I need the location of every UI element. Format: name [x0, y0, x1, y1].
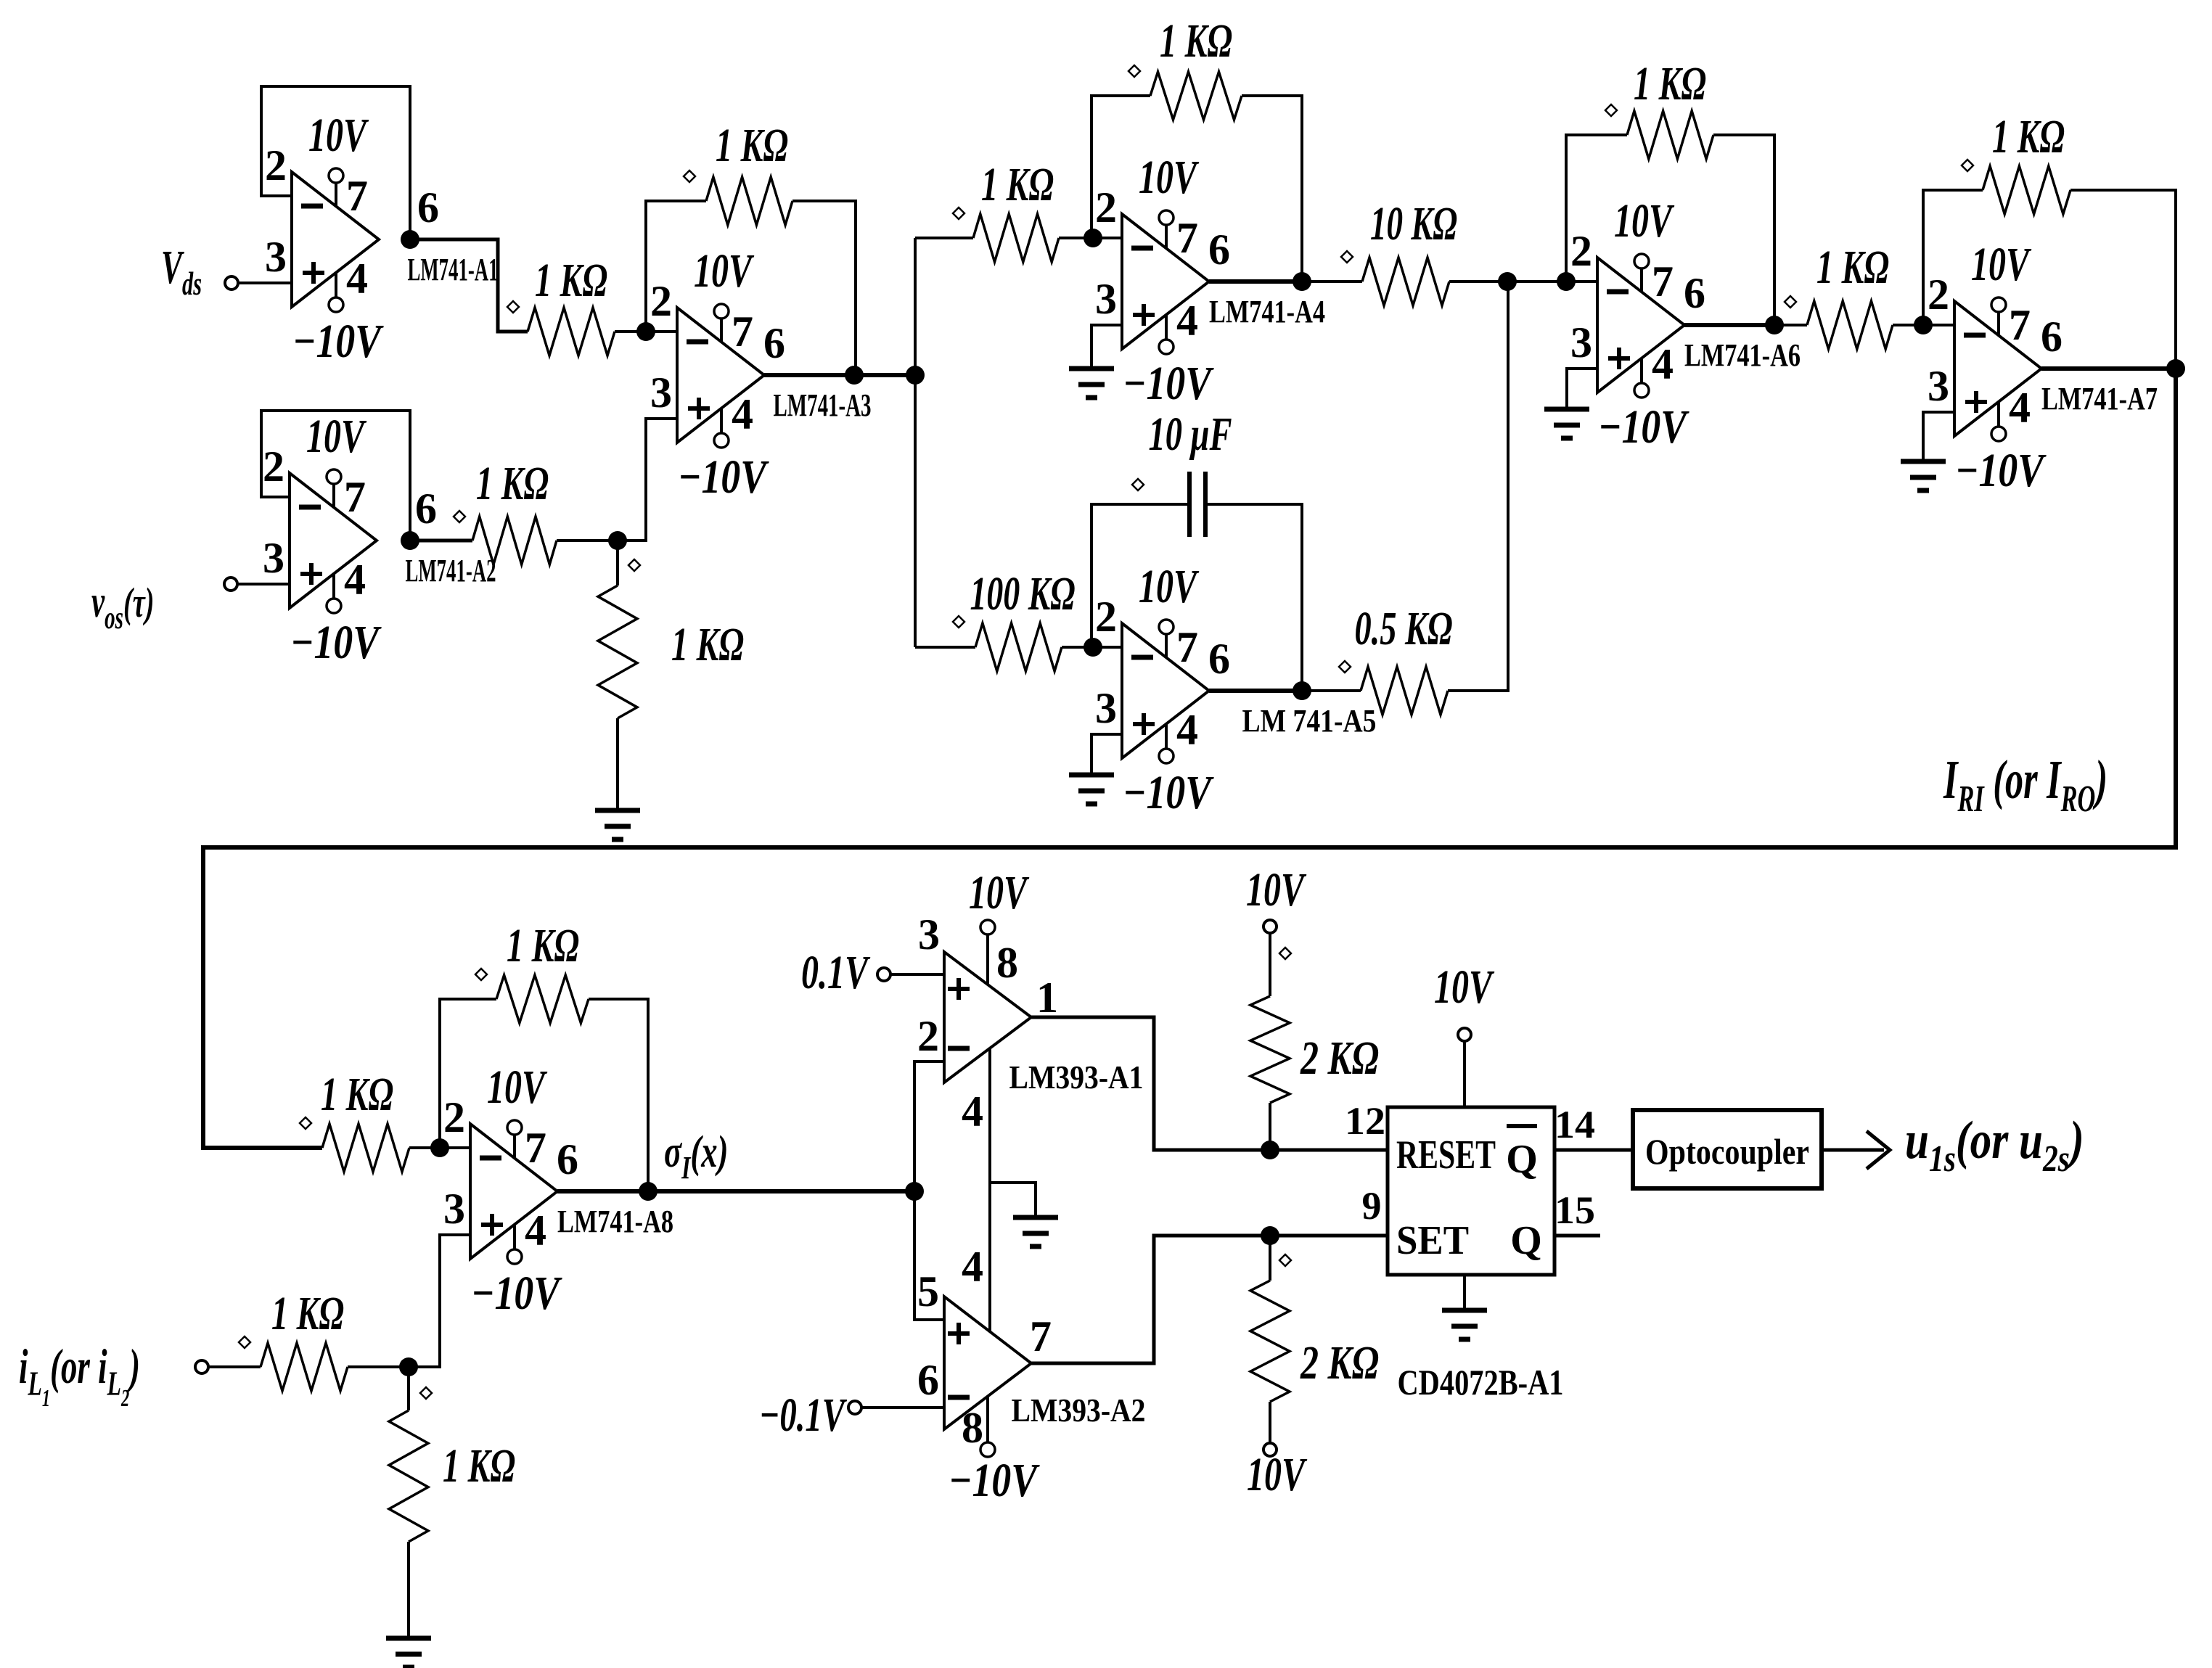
- svg-text:6: 6: [2041, 313, 2063, 361]
- op-amp LM741-A2 triangle: [290, 473, 377, 608]
- svg-text:SET: SET: [1396, 1218, 1469, 1263]
- wire CD4072 to ground: [1463, 1275, 1466, 1310]
- svg-text:12: 12: [1345, 1099, 1385, 1143]
- svg-text:7: 7: [525, 1124, 546, 1172]
- svg-text:4: 4: [1652, 340, 1674, 388]
- wire capacitor C1 feedback right: [1205, 504, 1302, 691]
- svg-text:10V: 10V: [1139, 560, 1200, 613]
- svg-text:10V: 10V: [694, 245, 755, 297]
- wire U2 output to R2: [410, 539, 472, 543]
- op-amp LM741-A6 inverting input marker: [1607, 289, 1629, 295]
- node U4 pin2: [1084, 229, 1102, 247]
- wire +10V to CD4072: [1463, 1041, 1466, 1107]
- svg-text:Q: Q: [1510, 1218, 1542, 1263]
- svg-text:LM741-A1: LM741-A1: [408, 252, 499, 287]
- svg-text:7: 7: [344, 473, 366, 521]
- op-amp LM741-A4 inverting input marker: [1131, 246, 1153, 251]
- svg-text:2: 2: [1095, 184, 1117, 231]
- resistor R6 marker: [1128, 65, 1140, 77]
- node N2 junction with R9 branch: [1498, 272, 1517, 291]
- svg-text:6: 6: [1208, 635, 1230, 683]
- wire U6 output to R11: [1774, 324, 1807, 326]
- op-amp LM741-A6 triangle: [1597, 258, 1684, 393]
- svg-text:10V: 10V: [308, 109, 369, 162]
- input vos(tau) label: [91, 578, 154, 636]
- op-amp LM741-A8 non-inverting input marker: [481, 1223, 503, 1227]
- resistor R5 marker: [953, 208, 964, 219]
- wire R14 to U8 output: [589, 999, 648, 1191]
- svg-text:6: 6: [1684, 269, 1705, 317]
- resistor R13 marker: [300, 1117, 311, 1129]
- output label u1s (or u2s): [1905, 1111, 2084, 1180]
- svg-text:1 KΩ: 1 KΩ: [1634, 57, 1706, 110]
- svg-text:LM741-A2: LM741-A2: [406, 553, 496, 588]
- net label IRI (or IRO): [1943, 749, 2107, 820]
- op-amp LM 741-A5 pin 7 stub (+10V): [1165, 633, 1168, 658]
- wire R15 to node N3: [348, 1365, 409, 1368]
- input Vds label: [161, 241, 202, 302]
- resistor R7 marker: [1341, 251, 1353, 263]
- wire U4 output: [1209, 279, 1302, 284]
- wire U7 pin2 node to triangle: [1923, 324, 1954, 326]
- node U2 output: [401, 531, 419, 550]
- wire U8 output: [557, 1189, 648, 1194]
- resistor R9 marker: [1339, 661, 1351, 673]
- svg-text:−10V: −10V: [1955, 444, 2047, 497]
- wire node N4 to CD4072 RESET: [1270, 1149, 1389, 1152]
- resistor R3 marker: [628, 559, 640, 571]
- svg-text:7: 7: [1176, 623, 1198, 671]
- wire U8 feedback loop: [440, 999, 496, 1148]
- op-amp LM741-A1 pin 4 stub (-10V): [335, 273, 337, 297]
- wire R6 to U4 output: [1242, 96, 1302, 282]
- svg-text:4: 4: [2009, 384, 2031, 432]
- op-amp LM741-A7 pin 4 stub (-10V): [1997, 402, 2000, 427]
- node U6 output: [1765, 316, 1784, 334]
- svg-text:4: 4: [1176, 297, 1198, 345]
- wire U4 output to R7: [1302, 280, 1362, 283]
- wire -0.1V to U10 pin6: [861, 1406, 944, 1409]
- resistor R8 100 Kohm: [975, 623, 1062, 671]
- svg-text:6: 6: [417, 184, 439, 231]
- svg-text:7: 7: [1652, 258, 1674, 305]
- resistor R1 1 Kohm: [528, 308, 615, 356]
- svg-text:10V: 10V: [1971, 238, 2032, 291]
- input Vds terminal: [225, 276, 238, 289]
- svg-text:3: 3: [1928, 362, 1949, 410]
- output arrowhead: [1867, 1131, 1890, 1169]
- svg-text:7: 7: [346, 172, 368, 220]
- svg-text:2: 2: [263, 443, 284, 490]
- op-amp LM741-A4 triangle: [1122, 214, 1209, 349]
- svg-text:LM741-A3: LM741-A3: [774, 387, 872, 423]
- svg-text:2: 2: [917, 1012, 939, 1060]
- node N1: [608, 531, 627, 550]
- op-amp LM741-A2 non-inverting input marker: [300, 572, 322, 576]
- op-amp LM741-A2 inverting input marker: [299, 505, 321, 510]
- op-amp LM741-A7 pin 7 stub (+10V): [1997, 311, 2000, 336]
- comparator U9 LM393-A1 triangle: [944, 952, 1031, 1082]
- svg-text:4: 4: [732, 390, 753, 438]
- wire Vds to U1 pin3: [238, 282, 292, 284]
- svg-text:3: 3: [1095, 275, 1117, 323]
- node comparator input: [905, 1182, 924, 1201]
- svg-text:1 KΩ: 1 KΩ: [671, 618, 744, 671]
- svg-text:−0.1V: −0.1V: [759, 1389, 848, 1442]
- svg-text:15: 15: [1554, 1188, 1595, 1232]
- wire capacitor C1 feedback left: [1091, 504, 1189, 647]
- resistor R4 1 Kohm feedback: [706, 177, 792, 225]
- op-amp LM741-A8 pin 7 stub (+10V): [513, 1134, 516, 1159]
- resistor R9 0.5 Kohm: [1361, 667, 1448, 715]
- resistor R10 marker: [1605, 104, 1617, 116]
- comparator U10 non-inverting marker: [948, 1331, 970, 1336]
- resistor R10 1 Kohm feedback: [1627, 111, 1713, 159]
- input vos terminal: [224, 578, 237, 591]
- wire U10 output to node N5: [1031, 1236, 1270, 1363]
- input 0.1V terminal: [877, 968, 890, 981]
- ground at U6 pin3: [1544, 407, 1589, 412]
- svg-text:9: 9: [1362, 1184, 1382, 1228]
- node U8 output sigma: [639, 1182, 658, 1201]
- wire U7 feedback loop: [1923, 190, 1983, 325]
- svg-text:1: 1: [1036, 974, 1058, 1022]
- resistor R12 marker: [1962, 160, 1973, 171]
- svg-text:1 KΩ: 1 KΩ: [443, 1439, 515, 1492]
- resistor R1 marker: [507, 301, 519, 313]
- node U3 feedback-output junction: [845, 366, 864, 385]
- svg-text:−10V: −10V: [292, 315, 384, 368]
- node U1 output: [401, 230, 419, 249]
- wire R10 to U6 output: [1713, 135, 1774, 325]
- resistor R16 marker: [420, 1387, 432, 1399]
- op-amp LM741-A6 non-inverting input marker: [1608, 356, 1630, 361]
- svg-text:10 μF: 10 μF: [1149, 408, 1232, 461]
- wire Q output stub: [1554, 1234, 1600, 1238]
- svg-text:2: 2: [265, 141, 287, 189]
- ground below R16: [386, 1636, 431, 1641]
- svg-text:3: 3: [263, 534, 284, 582]
- wire U3 output: [764, 373, 915, 377]
- wire vos to U2 pin3: [237, 583, 290, 586]
- terminal +10V lower: [1263, 1443, 1277, 1456]
- wire U6 pin3 to ground: [1567, 369, 1597, 409]
- svg-text:4: 4: [962, 1243, 983, 1291]
- svg-text:4: 4: [346, 255, 368, 303]
- resistor R8 marker: [953, 616, 964, 628]
- svg-text:−10V: −10V: [471, 1267, 562, 1320]
- svg-text:LM393-A1: LM393-A1: [1009, 1059, 1144, 1096]
- op-amp LM 741-A5 non-inverting input marker: [1133, 722, 1155, 726]
- ground at U7 pin3: [1901, 459, 1946, 464]
- svg-text:100 KΩ: 100 KΩ: [970, 567, 1076, 620]
- svg-text:3: 3: [918, 911, 940, 958]
- resistor R15 marker: [239, 1336, 250, 1348]
- wire R5 to U4 pin2 node: [1059, 237, 1091, 239]
- wire R11 to U7 pin2 node: [1893, 324, 1923, 326]
- resistor R5 1 Kohm: [973, 214, 1059, 262]
- resistor R3 1 Kohm vertical: [616, 541, 619, 586]
- svg-text:2: 2: [1928, 271, 1949, 319]
- svg-text:−10V: −10V: [1123, 766, 1214, 819]
- op-amp LM741-A7 non-inverting input marker: [1965, 400, 1987, 404]
- svg-text:LM741-A8: LM741-A8: [557, 1204, 673, 1239]
- op-amp LM 741-A5 pin 4 stub (-10V): [1165, 724, 1168, 749]
- svg-text:2 KΩ: 2 KΩ: [1300, 1032, 1379, 1085]
- resistor R11 1 Kohm: [1807, 301, 1893, 349]
- svg-text:4: 4: [344, 556, 366, 604]
- wire U6 feedback loop: [1566, 135, 1627, 282]
- node U3 output branch: [906, 366, 925, 385]
- wire U1 output to R1: [410, 239, 528, 332]
- op-amp LM741-A8 pin 4 stub (-10V): [513, 1225, 516, 1249]
- wire IRI rail to U8: [203, 369, 2176, 1148]
- svg-text:2: 2: [443, 1093, 465, 1141]
- resistor R13 1 Kohm: [322, 1124, 409, 1172]
- op-amp LM741-A1 triangle: [292, 172, 379, 307]
- wire node N3 to U8 pin3: [409, 1235, 470, 1367]
- op-amp LM741-A7 inverting input marker: [1964, 333, 1986, 338]
- wire U7 pin3 to ground: [1923, 412, 1954, 461]
- ground at comparator pin 4: [1013, 1215, 1058, 1220]
- node N4: [1261, 1141, 1279, 1159]
- wire U4 feedback loop: [1091, 96, 1150, 238]
- op-amp LM741-A1 inverting input marker: [301, 204, 323, 209]
- comparator U9 non-inverting marker: [948, 987, 970, 991]
- op-amp LM 741-A5 inverting input marker: [1131, 655, 1153, 660]
- svg-text:1 KΩ: 1 KΩ: [271, 1287, 344, 1340]
- svg-text:−10V: −10V: [290, 616, 382, 669]
- svg-text:Optocoupler: Optocoupler: [1645, 1131, 1809, 1172]
- resistor R7 10 Kohm: [1362, 258, 1449, 305]
- svg-text:1 KΩ: 1 KΩ: [1992, 110, 2065, 163]
- svg-text:1 KΩ: 1 KΩ: [535, 254, 607, 307]
- svg-text:3: 3: [1570, 319, 1592, 366]
- svg-text:6: 6: [917, 1356, 939, 1404]
- node U4 output: [1293, 272, 1311, 291]
- wire U4 pin3 to ground: [1091, 325, 1122, 369]
- op-amp LM741-A4 pin 4 stub (-10V): [1165, 315, 1168, 340]
- comparator U9 pin 8 stub: [986, 934, 989, 985]
- svg-text:10V: 10V: [1246, 863, 1307, 916]
- op-amp LM741-A1 pin 7 stub (+10V): [335, 182, 337, 207]
- svg-text:1 KΩ: 1 KΩ: [1816, 241, 1889, 294]
- svg-text:1 KΩ: 1 KΩ: [1160, 15, 1232, 67]
- wire branch to R8: [915, 646, 975, 649]
- wire Qbar to optocoupler: [1554, 1149, 1633, 1152]
- svg-text:3: 3: [650, 369, 672, 416]
- wire R2 to node N1: [557, 539, 618, 542]
- svg-text:4: 4: [1176, 706, 1198, 754]
- resistor R14 1 Kohm feedback: [496, 975, 589, 1023]
- svg-text:10V: 10V: [487, 1061, 548, 1114]
- node U3 pin2: [636, 322, 655, 341]
- ground below R3: [595, 808, 640, 813]
- wire R1 to U3 pin2 node: [615, 330, 646, 333]
- resistor R17 marker: [1279, 948, 1291, 959]
- flip-flop CD4072B-A1 box: [1388, 1107, 1554, 1275]
- wire pin 4 line between comparators: [988, 1048, 991, 1331]
- wire input node to U9 pin2: [914, 1061, 944, 1191]
- svg-text:10V: 10V: [1434, 961, 1495, 1014]
- op-amp LM741-A8 inverting input marker: [480, 1156, 501, 1161]
- net label sigma_I(x): [664, 1127, 728, 1186]
- resistor R6 1 Kohm feedback: [1150, 72, 1242, 120]
- comparator U10 LM393-A2 triangle: [944, 1297, 1031, 1429]
- svg-text:5: 5: [917, 1268, 939, 1315]
- svg-text:2: 2: [1570, 227, 1592, 275]
- svg-text:CD4072B-A1: CD4072B-A1: [1398, 1362, 1564, 1402]
- svg-text:−10V: −10V: [1123, 357, 1214, 410]
- svg-text:6: 6: [1208, 226, 1230, 274]
- ground at U5 pin3: [1069, 773, 1114, 778]
- wire R9 up to node N2: [1448, 282, 1508, 691]
- wire sigma node to comparator input node: [648, 1189, 914, 1194]
- node U5 output: [1293, 681, 1311, 700]
- node N5: [1261, 1226, 1279, 1245]
- op-amp LM741-A4 non-inverting input marker: [1133, 313, 1155, 317]
- svg-text:1 KΩ: 1 KΩ: [716, 119, 788, 172]
- svg-text:6: 6: [557, 1135, 578, 1183]
- svg-text:14: 14: [1554, 1103, 1595, 1146]
- wire U3 pin2 node to triangle: [646, 330, 677, 333]
- wire U5 output to R9: [1302, 689, 1361, 692]
- svg-text:8: 8: [996, 939, 1018, 987]
- svg-text:10V: 10V: [1247, 1448, 1308, 1501]
- wire U5 pin2 node to triangle: [1093, 646, 1122, 649]
- resistor R17 2 Kohm vertical: [1269, 934, 1271, 996]
- comparator U10 inverting marker: [948, 1395, 970, 1400]
- svg-text:Q: Q: [1506, 1137, 1538, 1182]
- svg-text:0.5 KΩ: 0.5 KΩ: [1355, 602, 1453, 655]
- wire U4 pin2 node to triangle: [1093, 237, 1122, 239]
- wire node N1 to U3 pin3: [618, 419, 677, 541]
- capacitor C1 10 uF: [1187, 472, 1192, 537]
- wire branch vertical to R5 and R8: [914, 238, 917, 647]
- svg-text:3: 3: [1095, 684, 1117, 732]
- node U8 pin2: [430, 1138, 449, 1157]
- svg-text:2 KΩ: 2 KΩ: [1300, 1336, 1379, 1389]
- svg-text:−10V: −10V: [678, 451, 769, 504]
- wire U5 output: [1209, 689, 1302, 693]
- svg-text:2: 2: [1095, 593, 1117, 641]
- node U5 pin2: [1084, 638, 1102, 657]
- svg-text:10 KΩ: 10 KΩ: [1370, 197, 1457, 250]
- op-amp LM741-A3 pin 4 stub (-10V): [720, 408, 723, 433]
- op-amp LM741-A3 triangle: [677, 308, 764, 443]
- wire N2 to U6 pin2 node: [1507, 280, 1566, 283]
- wire node N5 to CD4072 SET: [1270, 1234, 1389, 1238]
- op-amp LM741-A2 pin 7 stub (+10V): [332, 483, 335, 508]
- resistor R2 marker: [454, 511, 465, 522]
- svg-text:8: 8: [962, 1404, 983, 1452]
- node N3: [399, 1357, 418, 1376]
- wire U5 pin3 to ground: [1091, 734, 1122, 775]
- svg-text:1 KΩ: 1 KΩ: [476, 457, 549, 510]
- node U7 pin2: [1914, 316, 1933, 334]
- wire U3 feedback loop: [646, 201, 706, 332]
- op-amp LM741-A6 pin 7 stub (+10V): [1640, 268, 1643, 292]
- node U7 output: [2166, 359, 2185, 378]
- svg-text:LM741-A7: LM741-A7: [2041, 381, 2158, 416]
- svg-text:1 KΩ: 1 KΩ: [981, 158, 1054, 211]
- svg-text:10V: 10V: [306, 410, 367, 463]
- op-amp LM 741-A5 triangle: [1122, 623, 1209, 758]
- op-amp LM741-A6 pin 4 stub (-10V): [1640, 358, 1643, 383]
- svg-text:LM393-A2: LM393-A2: [1012, 1392, 1146, 1429]
- svg-text:6: 6: [763, 319, 785, 367]
- wire branch to R5: [915, 237, 973, 239]
- resistor R15 1 Kohm: [261, 1343, 348, 1391]
- wire U6 pin2 node to triangle: [1566, 280, 1597, 283]
- wire iL1 to R15: [208, 1365, 261, 1368]
- svg-text:10V: 10V: [1139, 151, 1200, 204]
- svg-text:RESET: RESET: [1396, 1133, 1496, 1178]
- svg-text:−10V: −10V: [949, 1454, 1040, 1507]
- wire U7 output: [2041, 366, 2176, 371]
- input iL1 terminal: [195, 1360, 208, 1373]
- wire input node to U10 pin5: [914, 1191, 944, 1320]
- op-amp LM741-A3 pin 7 stub (+10V): [720, 318, 723, 342]
- svg-text:1 KΩ: 1 KΩ: [321, 1068, 393, 1121]
- wire U9 output to node N4: [1031, 1017, 1270, 1150]
- resistor R2 1 Kohm: [472, 517, 557, 564]
- ground below CD4072: [1442, 1308, 1487, 1313]
- input -0.1V terminal: [848, 1401, 861, 1414]
- svg-text:7: 7: [1176, 214, 1198, 262]
- optocoupler box: [1633, 1110, 1822, 1188]
- wire 0.1V to U9 pin3: [890, 973, 944, 976]
- wire R12 to U7 output: [2070, 190, 2176, 369]
- op-amp LM741-A7 triangle: [1954, 301, 2041, 436]
- resistor R12 1 Kohm feedback: [1983, 166, 2070, 214]
- terminal +10V upper: [1263, 920, 1277, 933]
- svg-text:4: 4: [962, 1088, 983, 1135]
- svg-text:LM 741-A5: LM 741-A5: [1242, 703, 1377, 739]
- svg-text:2: 2: [650, 277, 672, 325]
- wire optocoupler to output arrow: [1822, 1149, 1884, 1152]
- svg-text:7: 7: [732, 308, 753, 356]
- wire pin 4 to ground: [990, 1183, 1036, 1217]
- wire U2 feedback box pin6 to pin2: [261, 411, 410, 541]
- svg-text:LM741-A6: LM741-A6: [1684, 337, 1801, 373]
- op-amp LM741-A4 pin 7 stub (+10V): [1165, 224, 1168, 249]
- wire R8 to U5 pin2 node: [1062, 646, 1093, 649]
- svg-text:LM741-A4: LM741-A4: [1209, 294, 1325, 329]
- wire U8 pin2 node to triangle: [440, 1146, 470, 1149]
- op-amp LM741-A3 non-inverting input marker: [688, 406, 710, 411]
- resistor R11 marker: [1785, 296, 1796, 308]
- svg-text:7: 7: [2009, 301, 2031, 349]
- resistor R16 1 Kohm vertical: [407, 1367, 410, 1410]
- wire R13 to U8 pin2 node: [409, 1146, 440, 1149]
- CD4072 +10V terminal: [1458, 1028, 1471, 1041]
- wire U1 feedback box pin6 to pin2: [261, 86, 410, 239]
- resistor R18 2 Kohm vertical: [1269, 1236, 1271, 1281]
- node U6 pin2: [1557, 272, 1576, 291]
- svg-text:6: 6: [415, 485, 437, 533]
- op-amp LM741-A8 triangle: [470, 1124, 557, 1259]
- op-amp LM741-A3 inverting input marker: [687, 340, 708, 345]
- input iL1 label: [19, 1340, 140, 1412]
- svg-text:7: 7: [1030, 1312, 1052, 1360]
- op-amp LM741-A2 pin 4 stub (-10V): [332, 574, 335, 599]
- svg-text:3: 3: [265, 233, 287, 281]
- svg-text:3: 3: [443, 1185, 465, 1233]
- svg-text:4: 4: [525, 1207, 546, 1254]
- comparator U10 pin 8 stub: [986, 1396, 989, 1442]
- comparator U9 inverting marker: [948, 1046, 970, 1051]
